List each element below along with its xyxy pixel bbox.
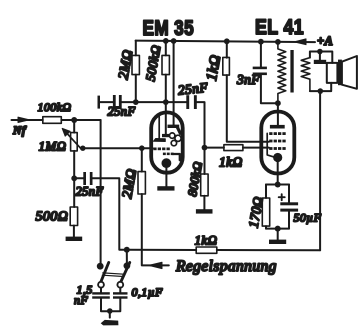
wire 500k bottom lead — [165, 75, 167, 103]
svg-text:2MΩ: 2MΩ — [120, 168, 140, 200]
node switch right pivot dot — [124, 262, 131, 269]
wire top supply rail — [136, 41, 315, 43]
wire EM35 cathode to ground — [165, 163, 167, 186]
wire grid stopper to tube — [205, 147, 269, 149]
svg-text:25nF: 25nF — [177, 80, 209, 98]
capacitor C 50uF plates — [280, 202, 298, 211]
resistor R 1k AGC body — [196, 247, 217, 253]
speaker back plate — [338, 60, 342, 86]
wire anode bus left — [121, 101, 186, 103]
speaker cone — [342, 56, 357, 89]
ground bottom center — [101, 320, 119, 326]
EM35 deflector dashes — [163, 153, 174, 156]
node cathode network bottom dot — [275, 226, 281, 232]
wire 800k to ground — [203, 196, 205, 210]
EL41 grid g2 dashes — [269, 140, 285, 143]
node rail target dot — [171, 38, 177, 44]
wire secondary loop bottom — [310, 83, 331, 91]
ground below 800k — [196, 209, 213, 213]
wire 2M bottom lead — [135, 75, 137, 103]
svg-text:EL 41: EL 41 — [255, 15, 304, 39]
wire EM35 target lead from rail — [173, 41, 175, 126]
capacitor C 25nF grid plates — [113, 95, 122, 109]
svg-text:25nF: 25nF — [76, 185, 104, 199]
node rail 500k dot — [163, 38, 169, 44]
EL41 grid g1 dashes — [269, 147, 285, 150]
ground EM35 cathode — [157, 186, 174, 190]
arrowhead +A pointing left on rail — [294, 39, 306, 45]
svg-text:3nF: 3nF — [236, 72, 260, 87]
resistor R 2M body — [132, 55, 139, 74]
node anode bus at 500k — [163, 99, 169, 105]
node switch left pivot dot — [97, 263, 104, 270]
resistor R 800k lead — [204, 148, 206, 174]
node rail primary dot — [275, 39, 281, 45]
inductor L secondary winding — [301, 58, 310, 92]
switch blade right — [120, 263, 129, 284]
resistor R 800k body — [201, 174, 208, 196]
node secondary top dot — [317, 49, 323, 55]
inductor L primary winding — [278, 42, 286, 103]
svg-text:25nF: 25nF — [108, 105, 136, 119]
wire contacts to caps — [101, 288, 120, 293]
wiper junction dot — [80, 146, 85, 151]
wire 3nF bottom to anode node — [261, 75, 278, 103]
tube U1 EM35 envelope — [151, 112, 183, 172]
svg-text:1kΩ: 1kΩ — [204, 54, 224, 83]
switch link bar — [102, 273, 124, 277]
svg-text:100kΩ: 100kΩ — [38, 100, 72, 114]
node Nf input wire — [12, 119, 43, 121]
resistor R 1k grid stopper — [224, 145, 243, 151]
svg-text:+A: +A — [317, 34, 333, 48]
EL41 anode lead — [277, 103, 279, 125]
resistor R 500 body — [70, 207, 77, 226]
svg-text:1kΩ: 1kΩ — [219, 155, 243, 170]
switch contact circle left — [98, 282, 104, 288]
EM35 cathode dot — [162, 158, 172, 168]
EM35 target plate bar — [153, 139, 165, 142]
transformer core bar — [290, 50, 293, 93]
EM35 fluorescent screen circles — [170, 133, 175, 138]
capacitor C 25nF lower-left — [83, 172, 92, 185]
switch contact circle right — [117, 282, 123, 288]
wire stub to cap — [100, 101, 113, 103]
EM35 target hook bar — [168, 125, 180, 128]
capacitor C 3nF top lead — [260, 42, 262, 67]
wire 2M grid down to Regelspannung corner — [142, 194, 169, 265]
wire node A down long vertical to switch — [100, 120, 102, 266]
resistor R 2M top lead — [135, 41, 137, 56]
EM35 triode anode lead inside — [165, 102, 167, 134]
resistor R 170 leads — [265, 185, 267, 229]
wire cathode network top — [266, 184, 289, 186]
capacitor C 25nF coupling to EL41 — [186, 95, 196, 109]
potentiometer wiper arrow — [66, 132, 82, 149]
EL41 grid g3 dashes — [269, 132, 285, 135]
capacitor C 25nF grid stub bar — [98, 96, 101, 109]
svg-text:500Ω: 500Ω — [36, 210, 69, 225]
speaker driver box — [327, 63, 338, 83]
resistor R 1k screen body — [223, 57, 230, 75]
resistor R 100k — [43, 117, 62, 124]
resistor R 170 body — [262, 198, 269, 226]
wire AGC node down to switch right pole — [126, 250, 128, 266]
ground tap of secondary — [319, 52, 321, 61]
resistor R 500 lead — [73, 178, 75, 207]
node secondary bottom dot — [318, 88, 324, 94]
tube U2 EL41 envelope — [261, 112, 294, 174]
EM35 target support line — [158, 114, 160, 140]
node rail screen dot — [224, 38, 230, 44]
EM35 grid dashes — [153, 148, 170, 151]
capacitor C 1.5nF plates — [92, 292, 110, 298]
svg-text:Regelspannung: Regelspannung — [175, 258, 277, 275]
wire cap to corner down to AGC node — [92, 178, 127, 249]
resistor R 2M grid body — [138, 172, 145, 194]
resistor R 500k body — [162, 55, 169, 74]
node cathode-bottom junction dot — [71, 175, 77, 181]
wire grid line from wiper to EM35 — [83, 147, 153, 149]
svg-text:0,1µF: 0,1µF — [132, 285, 164, 299]
wire EL41 cathode down — [277, 158, 279, 185]
node EL41 grid junction — [202, 145, 208, 151]
svg-text:nF: nF — [74, 293, 88, 307]
node cathode network top dot — [275, 182, 281, 188]
wire caps to common ground — [101, 298, 120, 311]
svg-text:500kΩ: 500kΩ — [142, 44, 163, 83]
wire junction to cap — [74, 177, 83, 179]
wire coupling cap to grid node — [197, 102, 205, 148]
wire input node A — [61, 119, 100, 121]
wire 500 to ground — [73, 226, 75, 238]
wire pot top lead — [73, 120, 75, 133]
wire pot bottom lead — [73, 151, 75, 178]
svg-text:1kΩ: 1kΩ — [195, 233, 218, 248]
svg-text:800kΩ: 800kΩ — [185, 160, 205, 197]
node AGC left junction — [124, 247, 130, 253]
plus sign of 50uF — [279, 194, 285, 200]
svg-text:Nf: Nf — [12, 125, 27, 137]
capacitor C 3nF plates — [253, 67, 267, 76]
EL41 cathode dot — [273, 153, 282, 162]
EM35 deflector bar — [162, 134, 171, 137]
node A junction dot — [71, 117, 77, 123]
node EL41 anode junction — [275, 100, 281, 106]
wire cathode network bottom — [266, 228, 289, 230]
node caps common dot — [107, 308, 113, 314]
potentiometer R 1M body — [71, 133, 78, 151]
resistor R 2M grid top lead — [141, 148, 143, 171]
arrowhead input pointing right — [18, 117, 30, 122]
switch blade left — [100, 263, 108, 284]
wire AGC line — [127, 249, 320, 252]
node rail 3nF dot — [258, 39, 264, 45]
wire to cathode ground — [277, 229, 279, 240]
EL41 g3 tie to cathode — [267, 133, 276, 157]
svg-text:EM 35: EM 35 — [143, 16, 195, 40]
svg-text:1MΩ: 1MΩ — [39, 139, 67, 154]
capacitor C 0.1uF plates — [113, 292, 128, 298]
node grid junction with 2M grid resistor — [139, 145, 145, 151]
EL41 anode plate bar — [270, 125, 285, 129]
resistor R 500k top lead — [165, 41, 167, 56]
resistor R 1k screen top lead — [226, 41, 228, 57]
wire to bottom ground — [109, 311, 111, 318]
node anode bus at 2M — [133, 99, 139, 105]
svg-text:2MΩ: 2MΩ — [116, 49, 136, 81]
EM35 target hook tail — [178, 128, 181, 134]
capacitor C 50uF leads — [288, 185, 290, 229]
EM35 deflector bracket — [173, 154, 180, 160]
arrowhead Regelspannung pointing left — [149, 262, 162, 268]
ground below 500 — [66, 237, 83, 241]
wire screen feed down and right into EL41 — [227, 75, 269, 142]
wire right rail from secondary down to AGC line — [319, 91, 321, 250]
ground cathode network — [269, 240, 286, 244]
svg-text:50µF: 50µF — [294, 211, 322, 225]
wire secondary loop top — [310, 52, 332, 63]
